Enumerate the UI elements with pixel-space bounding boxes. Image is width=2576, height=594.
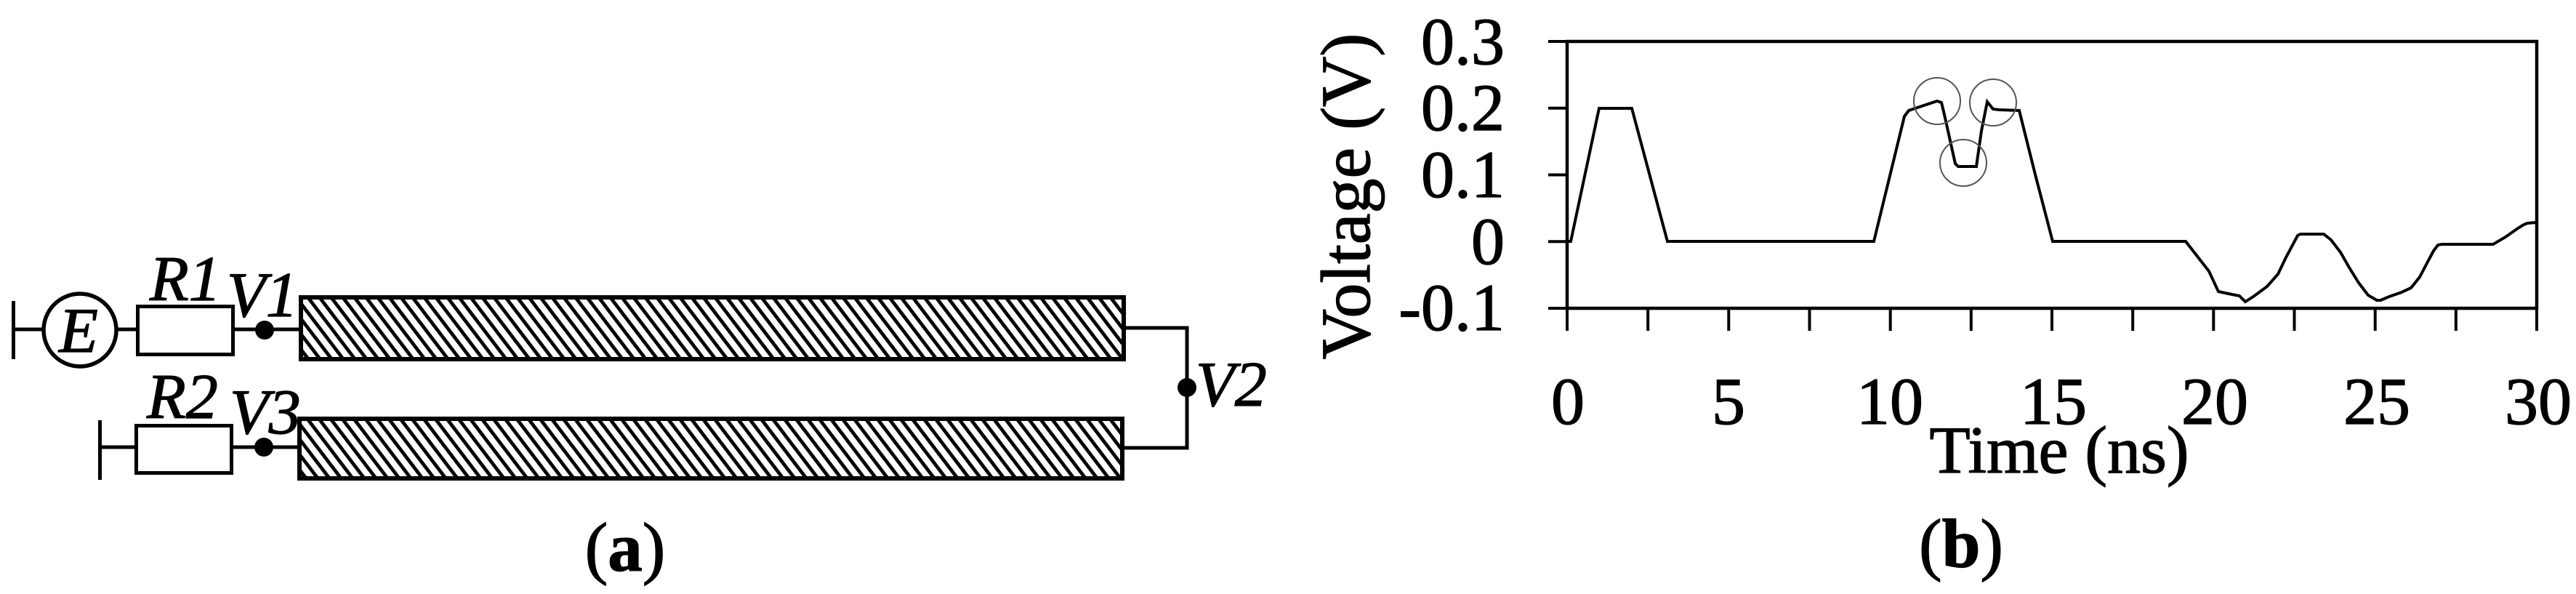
x ticks bbox=[1567, 308, 2537, 331]
plot frame bbox=[1567, 41, 2537, 308]
x tick labels bbox=[1551, 364, 2572, 438]
svg-text:-0.1: -0.1 bbox=[1398, 270, 1505, 345]
wire E to R1 bbox=[116, 328, 138, 332]
annotation circle 1 bbox=[1914, 78, 1960, 124]
svg-text:5: 5 bbox=[1712, 364, 1745, 438]
svg-text:V3: V3 bbox=[230, 377, 301, 448]
svg-text:10: 10 bbox=[1856, 364, 1923, 438]
wire left terminal stub row 1 bbox=[13, 328, 44, 332]
wire R1 to line 1 bbox=[235, 328, 301, 332]
svg-text:R1: R1 bbox=[149, 244, 221, 315]
resistor R2 bbox=[137, 426, 232, 473]
transmission line 1 bbox=[301, 297, 1124, 359]
svg-text:0.3: 0.3 bbox=[1421, 4, 1505, 79]
terminal bar T2 bbox=[98, 420, 102, 480]
svg-text:Time (ns): Time (ns) bbox=[1930, 413, 2189, 487]
svg-text:0.1: 0.1 bbox=[1421, 137, 1505, 212]
svg-text:0: 0 bbox=[1471, 204, 1505, 278]
svg-text:(b): (b) bbox=[1919, 505, 2003, 582]
wire T2 to R2 bbox=[100, 446, 137, 449]
annotation circle 2 bbox=[1970, 79, 2016, 126]
svg-text:20: 20 bbox=[2181, 364, 2248, 438]
y ticks bbox=[1548, 41, 1567, 308]
node V3 bbox=[254, 438, 273, 457]
transmission line 2 bbox=[299, 419, 1122, 478]
svg-text:0: 0 bbox=[1551, 364, 1585, 438]
svg-text:Voltage (V): Voltage (V) bbox=[1307, 33, 1385, 360]
svg-text:(a): (a) bbox=[585, 509, 666, 586]
terminal bar T1 bbox=[12, 301, 15, 359]
svg-text:V1: V1 bbox=[227, 260, 298, 331]
node V1 bbox=[255, 321, 274, 340]
annotation circle 3 bbox=[1940, 140, 1987, 186]
source E bbox=[44, 294, 116, 366]
svg-text:0.2: 0.2 bbox=[1421, 71, 1505, 145]
y tick labels bbox=[1398, 4, 1505, 345]
wire R2 to line 2 bbox=[233, 446, 299, 449]
wire line1 to V2 bbox=[1123, 328, 1187, 448]
svg-text:30: 30 bbox=[2505, 364, 2572, 438]
svg-text:V2: V2 bbox=[1196, 350, 1267, 420]
svg-text:R2: R2 bbox=[146, 362, 218, 433]
svg-text:E: E bbox=[57, 296, 98, 366]
waveform trace bbox=[1567, 101, 2536, 302]
node V2 bbox=[1178, 378, 1196, 397]
svg-text:25: 25 bbox=[2343, 364, 2410, 438]
resistor R1 bbox=[138, 307, 233, 355]
